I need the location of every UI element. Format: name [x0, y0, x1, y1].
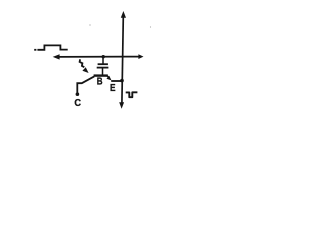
- junction dot on axis (capacitor tap): [102, 55, 105, 58]
- svg-text:E: E: [110, 82, 116, 93]
- arrowhead down: [119, 102, 124, 109]
- arrowhead right: [138, 54, 143, 59]
- arrowhead up: [121, 11, 126, 18]
- emitter branch with arrow: [106, 76, 123, 83]
- vertical axis: [122, 17, 123, 104]
- transistor base bar: [94, 74, 108, 76]
- light arrow (photo input squiggle): [80, 59, 89, 73]
- svg-text:B: B: [97, 76, 103, 87]
- capacitor C: [97, 57, 109, 75]
- input pulse waveform: [34, 45, 67, 49]
- scan specks: [89, 24, 90, 25]
- collector branch: [76, 76, 95, 96]
- arrowhead left: [53, 54, 60, 59]
- horizontal axis (time axis): [57, 56, 140, 58]
- svg-text:C: C: [74, 98, 81, 109]
- output pulse (inverted): [126, 92, 138, 97]
